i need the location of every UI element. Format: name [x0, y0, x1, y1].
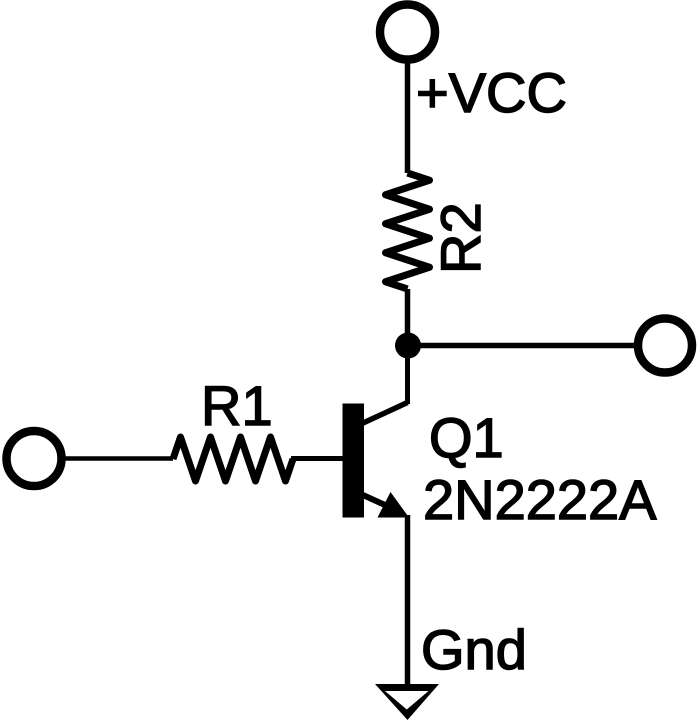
node junction (collector/output)	[395, 333, 421, 359]
wire VCC terminal to R2	[405, 62, 411, 173]
wire input terminal to R1	[64, 456, 173, 461]
wire node to collector	[405, 346, 410, 405]
base bar	[343, 404, 365, 518]
transistor Q1	[343, 403, 410, 518]
emitter lead	[363, 495, 386, 506]
wire base to R1	[291, 456, 344, 461]
resistor R2	[386, 173, 430, 289]
resistor R1	[173, 437, 293, 481]
emitter arrow	[378, 492, 410, 518]
wire R2 to node	[405, 289, 411, 346]
ground	[375, 684, 439, 720]
wire emitter to ground	[405, 515, 411, 688]
terminal VCC (top circle)	[380, 5, 435, 60]
svg-text:2N2222A: 2N2222A	[423, 468, 657, 531]
collector lead	[362, 403, 408, 424]
svg-text:R1: R1	[201, 374, 273, 437]
svg-text:Q1: Q1	[429, 406, 504, 469]
terminal output (right circle)	[638, 319, 692, 373]
terminal input (left circle)	[7, 431, 62, 486]
svg-text:+VCC: +VCC	[416, 61, 567, 124]
svg-text:Gnd: Gnd	[421, 618, 527, 681]
svg-text:R2: R2	[429, 202, 492, 274]
wire node to output terminal	[408, 343, 636, 349]
